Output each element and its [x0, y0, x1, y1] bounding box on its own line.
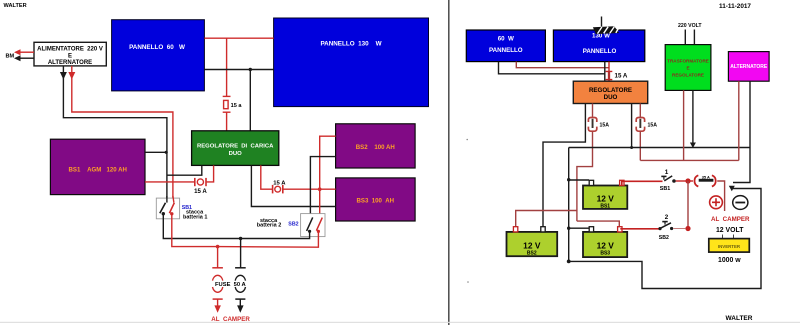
svg-text:batteria 2: batteria 2 — [257, 223, 281, 229]
svg-text:REGOLATORE DI CARICA: REGOLATORE DI CARICA — [197, 144, 274, 150]
svg-text:12 V: 12 V — [597, 240, 615, 250]
svg-text:FUSE 50 A: FUSE 50 A — [215, 282, 247, 288]
svg-text:ALTERNATORE: ALTERNATORE — [48, 60, 92, 66]
svg-text:ALTERNATORE: ALTERNATORE — [730, 64, 768, 70]
svg-text:PANNELLO: PANNELLO — [583, 48, 617, 55]
svg-text:AL CAMPER: AL CAMPER — [711, 216, 750, 223]
svg-text:15 A: 15 A — [615, 72, 628, 79]
svg-text:WALTER: WALTER — [726, 315, 753, 322]
svg-text:REGOLATORE: REGOLATORE — [672, 73, 704, 78]
svg-text:REGOLATORE: REGOLATORE — [589, 87, 632, 94]
svg-text:DUO: DUO — [229, 151, 243, 157]
svg-text:12 VOLT: 12 VOLT — [716, 227, 744, 234]
svg-text:TRASFORMATORE: TRASFORMATORE — [667, 59, 709, 64]
svg-text:PANNELLO 130 W: PANNELLO 130 W — [320, 41, 381, 48]
svg-text:SB1: SB1 — [660, 186, 671, 192]
svg-text:E: E — [686, 66, 689, 71]
svg-text:PANNELLO 60 W: PANNELLO 60 W — [129, 44, 185, 51]
svg-text:BS2 100 AH: BS2 100 AH — [356, 144, 395, 151]
svg-text:60 W: 60 W — [498, 36, 514, 43]
svg-text:DUO: DUO — [604, 94, 618, 101]
svg-text:ALIMENTATORE 220 V: ALIMENTATORE 220 V — [37, 46, 103, 52]
svg-text:BS2: BS2 — [527, 251, 537, 257]
svg-text:BM: BM — [6, 54, 15, 60]
svg-text:35 A: 35 A — [702, 175, 710, 180]
svg-text:12 V: 12 V — [597, 193, 615, 203]
svg-text:BS3 100 AH: BS3 100 AH — [356, 197, 394, 204]
svg-text:BS1 AGM 120 AH: BS1 AGM 120 AH — [69, 166, 127, 173]
svg-text:INVERTER: INVERTER — [718, 244, 741, 249]
svg-text:15 A: 15 A — [194, 188, 207, 195]
svg-text:PANNELLO: PANNELLO — [489, 47, 523, 54]
svg-text:E: E — [68, 53, 72, 59]
svg-text:15A: 15A — [648, 122, 658, 128]
svg-text:SB2: SB2 — [659, 235, 669, 241]
svg-text:11-11-2017: 11-11-2017 — [719, 3, 751, 10]
svg-text:BS1: BS1 — [600, 204, 610, 210]
svg-text:SB2: SB2 — [288, 221, 298, 227]
svg-text:2: 2 — [665, 214, 669, 221]
svg-text:15 a: 15 a — [231, 103, 243, 109]
svg-text:WALTER: WALTER — [4, 3, 27, 9]
svg-text:12 V: 12 V — [523, 240, 541, 250]
svg-text:220 VOLT: 220 VOLT — [678, 23, 702, 29]
svg-text:1: 1 — [665, 169, 669, 176]
svg-text:BS3: BS3 — [600, 251, 610, 257]
svg-text:15A: 15A — [600, 122, 610, 128]
svg-text:15 A: 15 A — [273, 180, 286, 186]
svg-text:batteria 1: batteria 1 — [183, 214, 207, 220]
svg-text:1000 w: 1000 w — [718, 257, 741, 264]
